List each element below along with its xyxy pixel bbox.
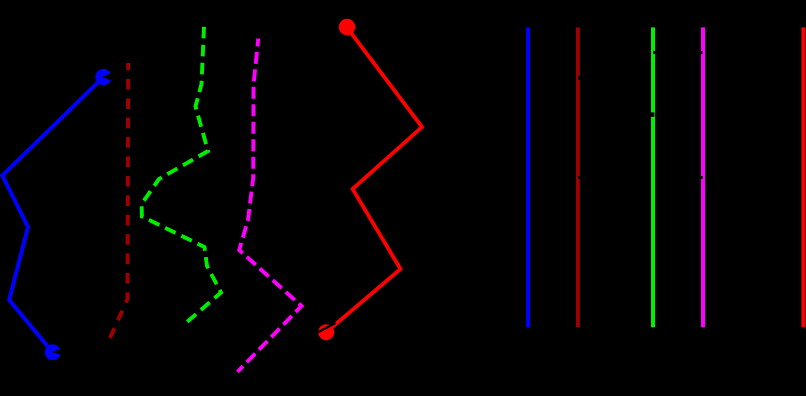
blue end marker notch	[51, 349, 61, 355]
green vertical notch 1	[653, 51, 655, 54]
blue start marker	[95, 69, 111, 85]
darkred vertical notch 1	[578, 76, 581, 80]
magenta vertical line (right subplot)	[701, 27, 705, 327]
green dashed series polyline (left subplot)	[142, 27, 221, 322]
red end marker	[318, 324, 334, 340]
blue start marker notch	[102, 72, 112, 81]
blue vertical line (right subplot)	[526, 27, 530, 327]
blue end marker	[45, 344, 61, 360]
green vertical line (right subplot)	[651, 27, 655, 327]
darkred dashed series polyline (left subplot)	[110, 63, 128, 338]
green vertical gap	[650, 112, 654, 116]
magenta vertical notch 1	[701, 51, 703, 54]
red start marker	[339, 19, 355, 35]
darkred vertical notch 2	[578, 176, 581, 179]
red vertical line (right subplot)	[801, 27, 805, 327]
blue series polyline (left subplot)	[2, 77, 103, 352]
magenta vertical notch 2	[701, 176, 703, 179]
magenta dashed series polyline (left subplot)	[238, 39, 302, 372]
red series polyline (left subplot)	[326, 28, 422, 333]
red end marker black slash	[317, 323, 336, 333]
darkred vertical line (right subplot)	[576, 27, 580, 327]
